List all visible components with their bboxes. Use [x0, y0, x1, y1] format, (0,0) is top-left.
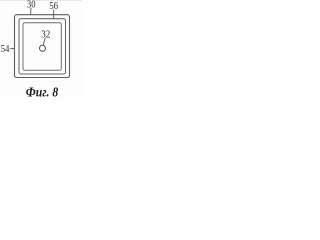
middle square contour (56) [19, 19, 66, 74]
svg-text:54: 54 [1, 43, 10, 55]
outer square contour (30) [15, 15, 70, 78]
svg-text:Фиг. 8: Фиг. 8 [26, 86, 58, 101]
svg-text:32: 32 [41, 28, 50, 40]
inner square contour (54) [23, 23, 61, 71]
svg-text:56: 56 [49, 0, 58, 12]
leader line for 30 [30, 8, 32, 15]
leader line for 32 [43, 38, 45, 46]
leader arrow for 54 [10, 47, 14, 49]
page background [0, 0, 82, 100]
top scan border [0, 0, 82, 1]
leader line for 56 [53, 10, 55, 19]
svg-text:30: 30 [27, 0, 36, 11]
circle 32 (center hole) [40, 45, 46, 51]
